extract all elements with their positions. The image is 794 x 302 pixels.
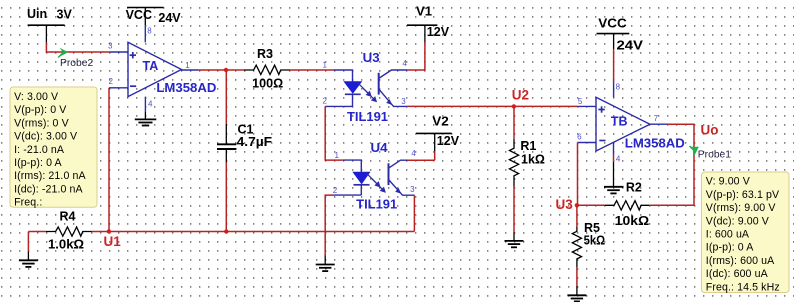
svg-text:10kΩ: 10kΩ bbox=[615, 214, 650, 228]
svg-text:U4: U4 bbox=[371, 141, 388, 155]
resistor R1 bbox=[509, 139, 545, 187]
optocoupler U4 phototransistor bbox=[389, 149, 417, 195]
svg-text:TB: TB bbox=[611, 115, 628, 129]
resistor R5 bbox=[572, 221, 605, 267]
svg-text:TIL191: TIL191 bbox=[347, 110, 388, 124]
wire U3 pin2 to U4 pin1 bbox=[325, 106, 343, 160]
op-amp TB pin6 stub bbox=[577, 133, 596, 143]
svg-text:Probe1: Probe1 bbox=[698, 150, 731, 161]
svg-text:V(rms): 9.00 V: V(rms): 9.00 V bbox=[706, 202, 777, 214]
wire U3 node down to R5 bbox=[576, 205, 578, 227]
svg-text:I(dc): 600 uA: I(dc): 600 uA bbox=[706, 268, 769, 280]
wire Uin to TA pin3 bbox=[46, 43, 109, 52]
svg-text:12V: 12V bbox=[427, 25, 450, 39]
wire U4 pin4 to V2 bbox=[408, 159, 435, 161]
optocoupler U3 pin1 bbox=[323, 61, 353, 82]
op-amp TA pin4 stub bbox=[145, 97, 153, 120]
junction dot at R3/C1 bbox=[224, 68, 228, 72]
resistor R2 bbox=[577, 180, 649, 228]
svg-text:1: 1 bbox=[335, 151, 340, 160]
svg-text:R4: R4 bbox=[60, 210, 76, 224]
wire C1 to U1 net bbox=[225, 162, 227, 232]
capacitor C1 bbox=[217, 123, 272, 163]
ground under R4 bbox=[19, 252, 38, 267]
svg-text:7: 7 bbox=[654, 114, 659, 123]
svg-text:U1: U1 bbox=[104, 234, 122, 249]
svg-text:4.7µF: 4.7µF bbox=[237, 135, 273, 149]
svg-text:TIL191: TIL191 bbox=[356, 197, 397, 211]
svg-text:R3: R3 bbox=[257, 47, 273, 61]
svg-text:2: 2 bbox=[333, 186, 338, 195]
svg-text:I: -21.0 nA: I: -21.0 nA bbox=[14, 144, 65, 156]
optocoupler U4 LED bbox=[353, 172, 369, 195]
svg-text:4: 4 bbox=[148, 99, 153, 108]
power VCC right bbox=[597, 17, 644, 53]
measurement box Probe1 readings bbox=[702, 172, 790, 293]
svg-text:LM358AD: LM358AD bbox=[625, 136, 685, 150]
wire U1 up to TA pin2 bbox=[108, 88, 110, 232]
svg-text:VCC: VCC bbox=[598, 17, 627, 31]
svg-text:Uin: Uin bbox=[27, 7, 47, 21]
wire U4 pin3 down to U1 net bbox=[413, 195, 415, 231]
op-amp TB pin8 stub bbox=[614, 49, 621, 97]
optocoupler U4 pin2 bbox=[333, 186, 362, 195]
optocoupler U3 pin2 bbox=[323, 97, 353, 107]
svg-text:1kΩ: 1kΩ bbox=[521, 153, 545, 167]
svg-text:1: 1 bbox=[185, 61, 190, 70]
probe Probe2 bbox=[58, 48, 93, 69]
op-amp TA pin2 stub bbox=[109, 77, 129, 88]
svg-text:V(dc): 3.00 V: V(dc): 3.00 V bbox=[14, 131, 78, 143]
svg-text:4: 4 bbox=[411, 149, 416, 158]
node U2 junction bbox=[512, 104, 516, 108]
measurement box Probe2 readings bbox=[10, 87, 97, 209]
svg-text:V2: V2 bbox=[432, 114, 449, 128]
optocoupler U3 LED bbox=[344, 82, 361, 107]
wire TB output to Uo and down to R2 bbox=[649, 124, 694, 205]
svg-text:U3: U3 bbox=[363, 51, 380, 65]
svg-text:V(p-p): 0 V: V(p-p): 0 V bbox=[14, 104, 67, 116]
svg-text:I: 600 uA: I: 600 uA bbox=[706, 229, 750, 241]
svg-text:V(rms): 0 V: V(rms): 0 V bbox=[14, 117, 69, 129]
optocoupler U3 phototransistor bbox=[379, 59, 408, 106]
svg-text:3V: 3V bbox=[57, 8, 73, 22]
wire R5 to ground bbox=[576, 267, 578, 286]
svg-text:V1: V1 bbox=[416, 5, 432, 19]
source V1 bbox=[407, 5, 450, 43]
svg-text:V(p-p): 63.1 pV: V(p-p): 63.1 pV bbox=[706, 189, 780, 201]
junction dot U1 bbox=[107, 229, 111, 233]
svg-text:12V: 12V bbox=[437, 134, 460, 148]
svg-text:LM358AD: LM358AD bbox=[156, 81, 216, 95]
svg-text:Freq.: 14.5 kHz: Freq.: 14.5 kHz bbox=[706, 281, 780, 293]
wire U2 down to R1 bbox=[513, 106, 515, 138]
svg-text:I(dc): -21.0 nA: I(dc): -21.0 nA bbox=[14, 183, 83, 195]
svg-text:V: 9.00 V: V: 9.00 V bbox=[706, 176, 751, 188]
svg-text:R1: R1 bbox=[520, 139, 536, 153]
svg-text:5kΩ: 5kΩ bbox=[584, 233, 606, 247]
ground under U4 bbox=[316, 256, 335, 272]
svg-text:8: 8 bbox=[616, 83, 621, 92]
ground under R1 bbox=[505, 233, 524, 248]
svg-text:3: 3 bbox=[108, 41, 113, 50]
svg-text:5: 5 bbox=[578, 97, 583, 106]
optocoupler U4 pin1 bbox=[335, 151, 362, 172]
svg-text:4: 4 bbox=[403, 59, 408, 68]
op-amp TB output pin7 bbox=[650, 114, 668, 124]
svg-text:I(rms): 600 uA: I(rms): 600 uA bbox=[706, 255, 775, 267]
svg-text:I(p-p): 0 A: I(p-p): 0 A bbox=[706, 242, 754, 254]
power VCC left bbox=[126, 8, 182, 26]
resistor R3 bbox=[244, 47, 290, 91]
svg-text:TA: TA bbox=[143, 59, 159, 73]
wire U4 pin2 to ground bbox=[325, 195, 334, 255]
op-amp TA pin8 stub bbox=[145, 25, 152, 42]
svg-text:2: 2 bbox=[323, 97, 328, 106]
svg-text:R2: R2 bbox=[626, 180, 642, 194]
optocoupler U4 light arrows bbox=[366, 173, 385, 192]
ground under R5 bbox=[567, 286, 586, 302]
node U1 horizontal wire bbox=[109, 231, 415, 233]
svg-text:8: 8 bbox=[147, 27, 152, 36]
svg-text:3: 3 bbox=[401, 97, 406, 106]
op-amp TB pin5 stub bbox=[577, 97, 596, 107]
wire U3 pin3 to U2 to TB pin5 bbox=[407, 105, 577, 107]
source Uin bar symbol bbox=[28, 25, 65, 43]
svg-text:3: 3 bbox=[410, 185, 415, 194]
wire U3 pin4 to V1 bbox=[407, 42, 425, 70]
svg-text:100Ω: 100Ω bbox=[252, 77, 283, 91]
source V2 bbox=[416, 114, 460, 160]
svg-text:I(rms): 21.0 nA: I(rms): 21.0 nA bbox=[14, 170, 86, 182]
svg-text:VCC: VCC bbox=[126, 8, 152, 22]
svg-text:6: 6 bbox=[577, 133, 582, 142]
op-amp TA output pin1 bbox=[182, 61, 199, 70]
optocoupler U3 light arrows bbox=[358, 83, 377, 102]
svg-text:4: 4 bbox=[616, 154, 621, 163]
svg-text:I(p-p): 0 A: I(p-p): 0 A bbox=[14, 157, 62, 169]
svg-text:V: 3.00 V: V: 3.00 V bbox=[14, 91, 59, 103]
probe Probe1 bbox=[689, 146, 731, 161]
junction dot U3 node bbox=[575, 203, 579, 207]
op-amp TB pin4 stub bbox=[614, 143, 621, 187]
svg-text:1: 1 bbox=[323, 61, 328, 70]
wire R1 to ground bbox=[513, 187, 515, 233]
svg-text:1.0kΩ: 1.0kΩ bbox=[48, 238, 84, 252]
svg-text:V(dc): 9.00 V: V(dc): 9.00 V bbox=[706, 215, 770, 227]
op-amp TB triangle bbox=[596, 97, 685, 151]
op-amp TA triangle bbox=[128, 42, 216, 96]
svg-text:24V: 24V bbox=[158, 11, 181, 25]
source Uin label bbox=[27, 7, 72, 22]
svg-text:Probe2: Probe2 bbox=[60, 58, 93, 69]
junction dot C1 bottom bbox=[224, 229, 228, 233]
ground under TB bbox=[604, 187, 624, 194]
svg-text:U2: U2 bbox=[512, 87, 529, 102]
svg-text:2: 2 bbox=[109, 77, 114, 86]
wire R3 to U3 pin1 bbox=[290, 69, 334, 71]
wire R4 to ground bbox=[27, 232, 29, 252]
resistor R4 bbox=[28, 210, 109, 252]
svg-text:U3: U3 bbox=[556, 197, 574, 212]
wire TA output to R3 bbox=[199, 69, 244, 71]
ground under TA bbox=[135, 119, 157, 125]
op-amp TA pin3 stub bbox=[108, 41, 128, 52]
wire TB pin6 down to U3 node bbox=[577, 143, 579, 206]
wire junction down to C1 bbox=[225, 70, 227, 124]
svg-text:Uo: Uo bbox=[701, 123, 719, 138]
svg-text:24V: 24V bbox=[617, 38, 644, 52]
svg-text:Freq.:: Freq.: bbox=[14, 197, 42, 209]
